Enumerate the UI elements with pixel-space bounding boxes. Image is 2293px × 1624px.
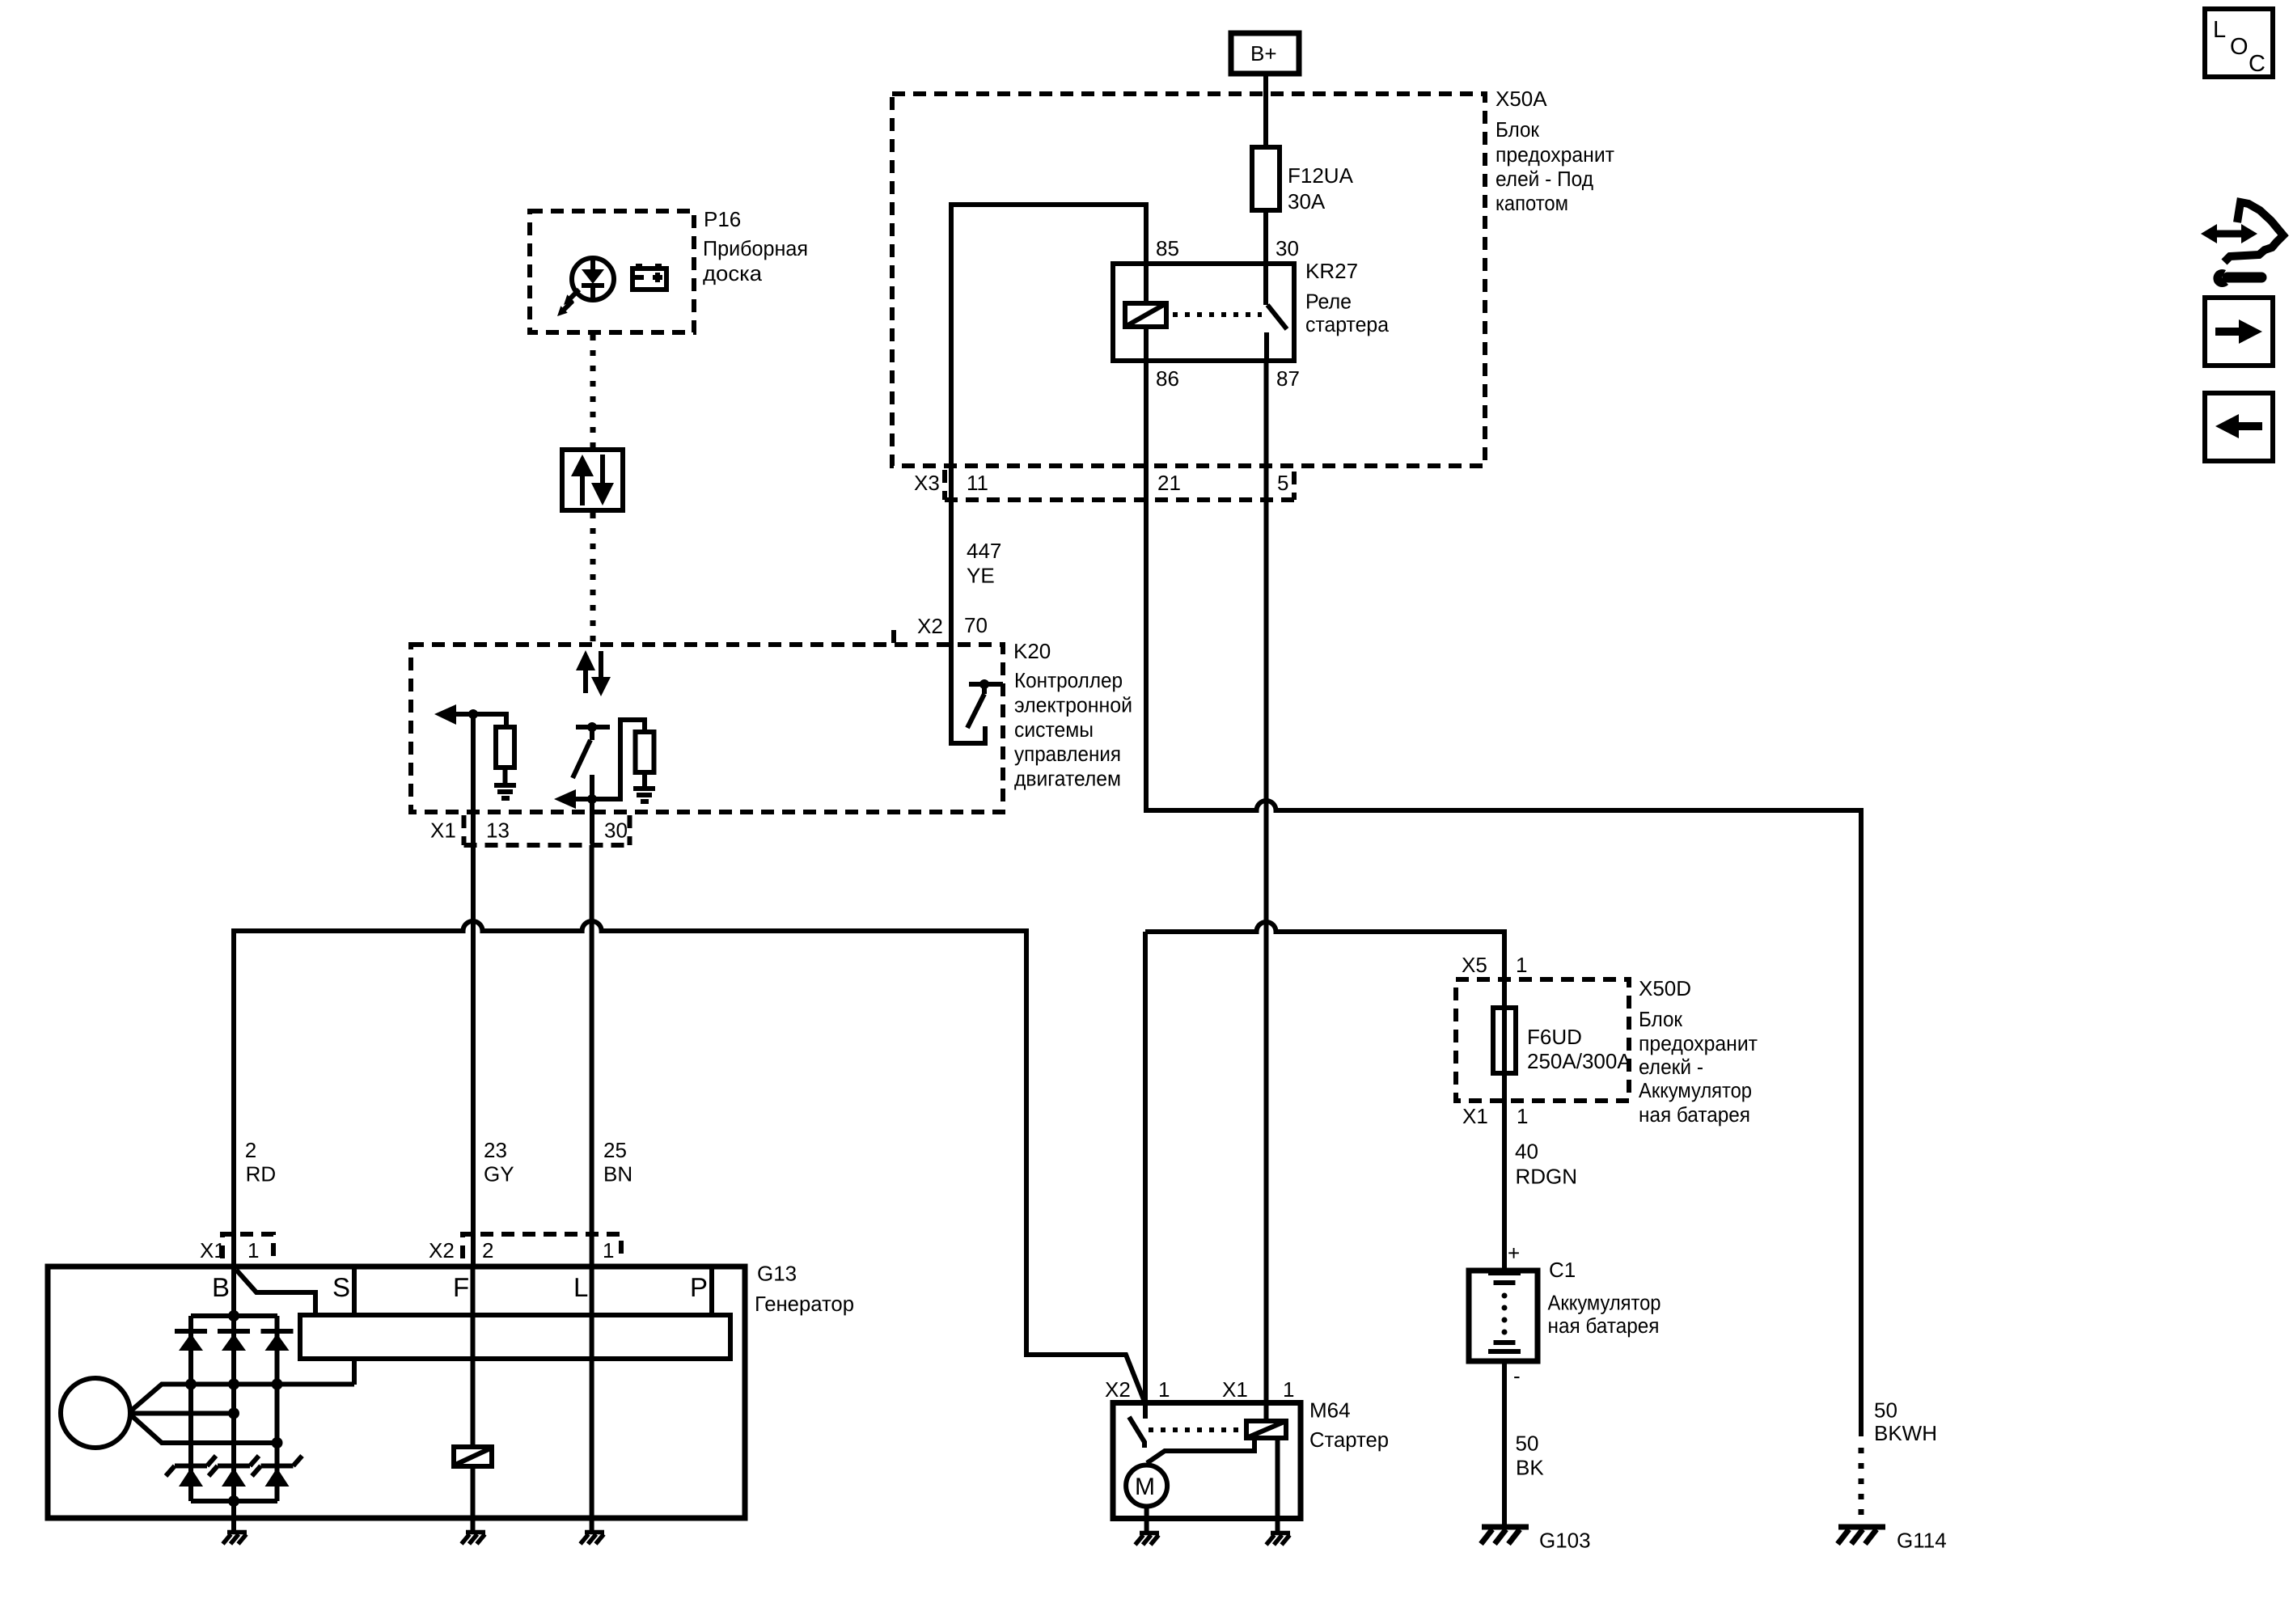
svg-text:M: M xyxy=(1135,1474,1155,1500)
svg-text:1: 1 xyxy=(247,1238,259,1262)
svg-text:Приборная: Приборная xyxy=(703,236,808,260)
svg-text:X2: X2 xyxy=(917,614,943,638)
svg-text:S: S xyxy=(332,1272,350,1302)
svg-text:2: 2 xyxy=(245,1138,256,1162)
svg-text:87: 87 xyxy=(1276,366,1300,391)
svg-text:BK: BK xyxy=(1516,1456,1544,1480)
svg-text:Аккумулятор: Аккумулятор xyxy=(1548,1291,1661,1315)
svg-text:GY: GY xyxy=(484,1162,514,1186)
svg-text:X1: X1 xyxy=(430,818,456,843)
svg-text:X1: X1 xyxy=(200,1238,226,1262)
svg-text:11: 11 xyxy=(967,471,988,495)
svg-text:1: 1 xyxy=(1516,953,1527,977)
svg-text:21: 21 xyxy=(1157,471,1181,495)
svg-text:X5: X5 xyxy=(1462,953,1487,977)
svg-text:1: 1 xyxy=(1283,1377,1294,1402)
svg-text:ная батарея: ная батарея xyxy=(1639,1102,1750,1127)
svg-text:F6UD: F6UD xyxy=(1527,1025,1582,1049)
svg-text:5: 5 xyxy=(1277,471,1288,495)
svg-text:Реле: Реле xyxy=(1305,290,1352,314)
svg-text:50: 50 xyxy=(1516,1432,1539,1456)
svg-text:двигателем: двигателем xyxy=(1014,767,1121,791)
svg-text:C: C xyxy=(2249,51,2266,77)
svg-text:1: 1 xyxy=(1158,1377,1170,1402)
svg-text:B: B xyxy=(212,1272,230,1302)
svg-text:L: L xyxy=(573,1272,588,1302)
svg-text:F: F xyxy=(453,1272,469,1302)
svg-text:30: 30 xyxy=(1276,236,1299,260)
svg-text:BKWH: BKWH xyxy=(1874,1421,1937,1445)
svg-text:50: 50 xyxy=(1874,1398,1897,1423)
svg-text:L: L xyxy=(2213,17,2226,43)
svg-text:250A/300A: 250A/300A xyxy=(1527,1049,1631,1073)
svg-text:Блок: Блок xyxy=(1496,117,1540,142)
svg-text:KR27: KR27 xyxy=(1305,259,1358,283)
svg-text:P: P xyxy=(690,1272,708,1302)
svg-text:электронной: электронной xyxy=(1014,692,1132,717)
svg-text:M64: M64 xyxy=(1309,1398,1351,1423)
svg-text:2: 2 xyxy=(482,1238,493,1262)
svg-text:X2: X2 xyxy=(1105,1377,1131,1402)
svg-text:Стартер: Стартер xyxy=(1309,1427,1389,1452)
svg-text:X50A: X50A xyxy=(1496,87,1547,111)
svg-text:C1: C1 xyxy=(1549,1258,1576,1282)
svg-text:капотом: капотом xyxy=(1496,191,1568,215)
svg-text:70: 70 xyxy=(964,613,988,637)
svg-text:+: + xyxy=(1508,1241,1520,1265)
svg-text:елей - Под: елей - Под xyxy=(1496,167,1593,191)
svg-text:-: - xyxy=(1513,1364,1521,1388)
svg-text:BN: BN xyxy=(603,1162,632,1186)
svg-text:X1: X1 xyxy=(1462,1104,1488,1128)
svg-text:RD: RD xyxy=(246,1162,277,1186)
svg-text:предохранит: предохранит xyxy=(1496,142,1614,167)
svg-text:23: 23 xyxy=(484,1138,507,1162)
svg-text:стартера: стартера xyxy=(1305,312,1390,336)
svg-text:X1: X1 xyxy=(1222,1377,1248,1402)
svg-text:K20: K20 xyxy=(1013,639,1051,663)
svg-text:25: 25 xyxy=(603,1138,627,1162)
svg-text:Контроллер: Контроллер xyxy=(1014,668,1123,692)
svg-text:30A: 30A xyxy=(1288,189,1326,214)
svg-text:1: 1 xyxy=(603,1238,614,1262)
svg-text:RDGN: RDGN xyxy=(1516,1165,1578,1189)
svg-text:86: 86 xyxy=(1156,366,1179,391)
svg-text:P16: P16 xyxy=(704,207,741,231)
svg-text:X2: X2 xyxy=(429,1238,455,1262)
svg-text:Генератор: Генератор xyxy=(755,1292,854,1316)
svg-text:O: O xyxy=(2230,34,2249,60)
svg-text:ная батарея: ная батарея xyxy=(1548,1313,1660,1338)
svg-text:Аккумулятор: Аккумулятор xyxy=(1639,1078,1752,1102)
svg-text:G114: G114 xyxy=(1897,1529,1947,1553)
svg-text:елекй -: елекй - xyxy=(1639,1055,1703,1079)
svg-text:X50D: X50D xyxy=(1639,976,1691,1000)
svg-text:1: 1 xyxy=(1517,1104,1528,1128)
svg-text:G13: G13 xyxy=(757,1262,797,1286)
svg-text:85: 85 xyxy=(1156,236,1179,260)
svg-text:предохранит: предохранит xyxy=(1639,1031,1758,1055)
svg-text:13: 13 xyxy=(486,818,510,843)
svg-text:B+: B+ xyxy=(1250,41,1277,66)
svg-text:YE: YE xyxy=(967,564,995,588)
svg-text:управления: управления xyxy=(1014,742,1121,766)
svg-text:X3: X3 xyxy=(914,471,940,495)
svg-text:F12UA: F12UA xyxy=(1288,163,1354,188)
svg-text:30: 30 xyxy=(604,818,628,843)
svg-text:системы: системы xyxy=(1014,717,1094,742)
svg-text:G103: G103 xyxy=(1539,1529,1591,1553)
svg-text:40: 40 xyxy=(1515,1140,1538,1164)
svg-text:447: 447 xyxy=(967,539,1001,563)
svg-text:Блок: Блок xyxy=(1639,1007,1683,1031)
svg-text:доска: доска xyxy=(703,261,763,285)
